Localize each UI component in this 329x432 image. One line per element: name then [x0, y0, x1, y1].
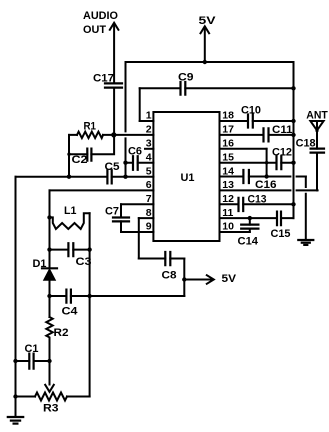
- svg-text:7: 7: [146, 193, 152, 205]
- svg-text:C16: C16: [255, 179, 277, 191]
- svg-text:C12: C12: [272, 147, 292, 159]
- svg-text:R3: R3: [43, 403, 59, 415]
- svg-text:13: 13: [222, 179, 234, 191]
- svg-text:4: 4: [146, 151, 152, 163]
- svg-text:C4: C4: [62, 305, 79, 317]
- svg-text:C14: C14: [238, 235, 259, 247]
- svg-text:5: 5: [146, 165, 152, 177]
- svg-text:2: 2: [146, 124, 152, 136]
- svg-text:C8: C8: [162, 269, 177, 281]
- svg-text:6: 6: [146, 179, 152, 191]
- svg-text:L1: L1: [64, 205, 77, 217]
- svg-text:C9: C9: [178, 72, 194, 84]
- svg-text:C1: C1: [25, 343, 39, 355]
- svg-text:OUT: OUT: [83, 24, 106, 36]
- svg-text:C13: C13: [248, 193, 267, 205]
- svg-text:C3: C3: [76, 256, 92, 268]
- svg-text:5V: 5V: [222, 273, 237, 285]
- svg-text:17: 17: [222, 124, 234, 136]
- svg-text:C18: C18: [296, 138, 316, 150]
- svg-text:8: 8: [146, 207, 152, 219]
- svg-text:R1: R1: [84, 120, 97, 132]
- svg-text:12: 12: [222, 193, 234, 205]
- svg-text:3: 3: [146, 138, 152, 150]
- svg-text:18: 18: [222, 110, 234, 122]
- svg-text:ANT: ANT: [306, 110, 328, 122]
- svg-text:15: 15: [222, 151, 234, 163]
- svg-text:10: 10: [222, 221, 234, 233]
- svg-text:C7: C7: [105, 205, 119, 217]
- svg-text:16: 16: [222, 138, 234, 150]
- svg-text:C6: C6: [128, 146, 142, 158]
- svg-text:AUDIO: AUDIO: [83, 10, 118, 22]
- svg-text:C5: C5: [105, 161, 120, 173]
- svg-text:14: 14: [222, 165, 234, 177]
- svg-text:R2: R2: [54, 327, 69, 339]
- svg-text:C10: C10: [241, 104, 261, 116]
- svg-text:D1: D1: [33, 258, 47, 270]
- svg-text:1: 1: [146, 110, 152, 122]
- svg-text:5V: 5V: [199, 15, 217, 27]
- svg-text:C17: C17: [93, 73, 114, 85]
- svg-text:C15: C15: [271, 228, 291, 240]
- svg-text:U1: U1: [181, 172, 195, 184]
- svg-text:C2: C2: [72, 154, 88, 166]
- svg-text:C11: C11: [272, 124, 293, 136]
- svg-text:11: 11: [222, 207, 233, 219]
- svg-text:9: 9: [146, 221, 152, 233]
